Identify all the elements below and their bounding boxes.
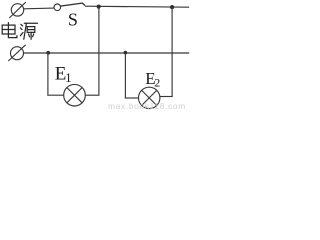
wire switch to top-right rail — [85, 6, 189, 7]
wire E2 bottom left — [125, 97, 139, 99]
switch S pivot circle — [54, 4, 61, 11]
hanzi YUAN 源 — [20, 23, 37, 39]
lamp E1 (circle with X) — [64, 84, 86, 106]
svg-text:1: 1 — [65, 70, 72, 85]
svg-text:2: 2 — [154, 75, 160, 89]
wire vertical V1 from top junction 1 down to lamp E1 right corner — [98, 7, 100, 96]
wire vertical V3 from middle junction 3 down to lamp E1 left corner — [47, 53, 49, 95]
node dot top junction 1 — [97, 5, 101, 9]
switch S blade — [61, 3, 85, 6]
wire E1 bottom right — [85, 94, 99, 96]
node dot middle junction 3 — [46, 51, 50, 55]
terminal T1 (top power terminal, circle with slash) — [9, 2, 25, 18]
svg-text:S: S — [68, 10, 78, 30]
node dot top junction 2 — [170, 5, 174, 9]
node dot middle junction 4 — [124, 51, 128, 55]
hanzi DIAN 电 — [2, 23, 17, 38]
terminal T2 (bottom power terminal, circle with slash) — [8, 45, 25, 61]
wire middle rail from T2 to right — [24, 52, 189, 54]
wire T1 to switch — [24, 7, 54, 10]
wire E1 bottom left — [47, 94, 64, 96]
lamp E2 (circle with X) — [139, 87, 160, 108]
wire vertical V4 from middle junction 4 down to lamp E2 left corner — [124, 53, 126, 98]
wire E2 bottom right — [160, 96, 173, 98]
svg-text:max.book118.com: max.book118.com — [108, 101, 186, 110]
wire vertical V2 from top junction 2 down to lamp E2 right corner — [171, 7, 173, 96]
label 电源 (power source) hand-drawn glyphs — [2, 23, 37, 40]
